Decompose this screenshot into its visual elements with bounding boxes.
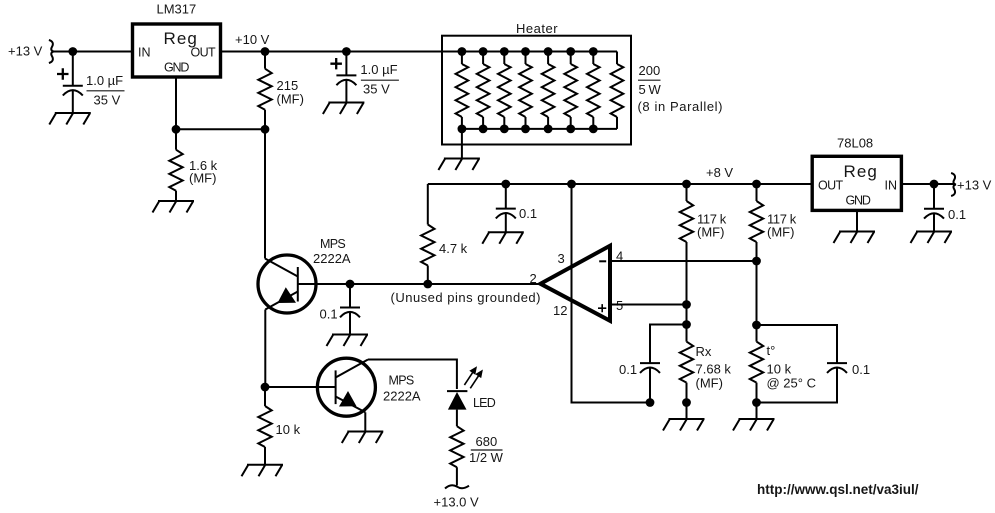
transistor Q1 MPS2222A [258, 237, 351, 313]
node junction pin4 [752, 257, 761, 266]
svg-text:t°: t° [767, 343, 776, 358]
ground [242, 465, 284, 477]
svg-text:+13 V: +13 V [957, 178, 992, 193]
svg-text:200: 200 [639, 63, 661, 78]
wire Q2 base [265, 386, 336, 388]
LED D1 [447, 366, 496, 410]
svg-text:0.1: 0.1 [948, 207, 966, 222]
node junction base cap [346, 280, 355, 289]
regulator U3 78L08 [812, 136, 901, 211]
wire LM317 GND pin down [175, 77, 177, 129]
svg-text:1.0 µF: 1.0 µF [360, 62, 397, 77]
regulator U1 LM317 [133, 2, 221, 78]
node junction dot input [68, 47, 77, 56]
svg-text:+13 V: +13 V [8, 44, 43, 59]
wire +8V rail [427, 184, 429, 225]
svg-text:3: 3 [558, 251, 565, 266]
ground [153, 201, 195, 213]
svg-text:10 k: 10 k [276, 422, 301, 437]
resistor R 215 MF [258, 52, 304, 130]
svg-text:Reg: Reg [844, 162, 879, 181]
svg-text:35 V: 35 V [94, 93, 121, 108]
capacitor 0.1 at 78L08 IN [924, 184, 966, 232]
resistor R 117k MF left [680, 180, 727, 325]
svg-text:0.1: 0.1 [619, 362, 637, 377]
node junction thermistor top [752, 321, 761, 330]
heater value label 200 / 5W / 8 in parallel [638, 63, 724, 114]
capacitor 0.1 at Q1 base [320, 284, 361, 335]
capacitor 0.1 left of Rx [619, 325, 687, 403]
resistor R 680 1/2W [450, 410, 503, 486]
ground [733, 419, 775, 431]
svg-text:+13.0 V: +13.0 V [434, 495, 480, 510]
svg-text:(8 in Parallel): (8 in Parallel) [638, 99, 724, 114]
svg-text:GND: GND [164, 61, 189, 75]
op-amp U2 [530, 246, 624, 321]
svg-text:(MF): (MF) [767, 225, 794, 240]
svg-text:@ 25° C: @ 25° C [767, 376, 816, 391]
node junction Rx bottom [682, 398, 691, 407]
svg-text:(MF): (MF) [277, 92, 304, 107]
wire opamp pin4 [610, 260, 757, 262]
svg-text:OUT: OUT [818, 179, 844, 193]
node +13V left entry [8, 40, 54, 63]
node junction pin5 [682, 300, 691, 309]
node junction GND pin [172, 125, 181, 134]
svg-text:78L08: 78L08 [837, 136, 873, 151]
ground [327, 335, 369, 347]
svg-text:10 k: 10 k [767, 362, 792, 377]
node junction 10k top [261, 383, 270, 392]
wire +13V to LM317 IN [53, 51, 133, 53]
wire Q2 collector to LED [368, 360, 457, 390]
node junction Rx top [682, 320, 691, 329]
svg-text:0.1: 0.1 [852, 362, 870, 377]
wire 78L08 IN to +13V [901, 183, 953, 185]
resistor R 117k MF right [750, 180, 797, 325]
node junction IN cap [930, 180, 939, 189]
svg-text:Rx: Rx [696, 344, 712, 359]
wire opamp pin5 [610, 304, 687, 306]
svg-text:LM317: LM317 [157, 2, 197, 17]
node +10V [235, 32, 270, 56]
svg-text:4.7 k: 4.7 k [439, 241, 468, 256]
wire LM317 OUT to heater [221, 51, 618, 53]
capacitor C2 1.0uF 35V [330, 47, 399, 102]
resistor R 1.6k MF [169, 129, 217, 201]
resistor R 4.7k [421, 225, 468, 289]
svg-text:IN: IN [885, 179, 898, 193]
heater resistor bank 200 ohm 5W x8 [456, 47, 624, 133]
svg-text:0.1: 0.1 [519, 206, 537, 221]
svg-text:1/2 W: 1/2 W [469, 450, 504, 465]
wire heater ground stem [461, 129, 463, 159]
ground [911, 232, 953, 244]
node junction thermistor bottom [752, 398, 761, 407]
svg-text:2222A: 2222A [383, 389, 421, 404]
svg-text:35 V: 35 V [363, 82, 390, 97]
svg-text:(MF): (MF) [189, 171, 216, 186]
svg-text:1.0 µF: 1.0 µF [86, 73, 123, 88]
node junction rail opamp [567, 180, 576, 189]
capacitor C1 1.0uF 35V [57, 52, 125, 114]
svg-text:0.1: 0.1 [320, 307, 338, 322]
svg-text:http://www.qsl.net/va3iul/: http://www.qsl.net/va3iul/ [757, 482, 919, 497]
svg-text:MPS: MPS [320, 237, 345, 251]
svg-text:5 W: 5 W [639, 82, 662, 97]
svg-text:Heater: Heater [516, 21, 558, 36]
ground [482, 232, 524, 244]
resistor R 10k [258, 387, 300, 465]
svg-text:+10 V: +10 V [235, 32, 270, 47]
svg-text:7.68 k: 7.68 k [696, 362, 732, 377]
resistor Rx 7.68k MF [680, 325, 732, 420]
node junction 215 bottom [261, 125, 270, 134]
svg-text:IN: IN [138, 46, 151, 60]
svg-text:2222A: 2222A [313, 251, 351, 266]
transistor Q2 MPS2222A [317, 358, 421, 416]
wire Q1 emitter down [264, 310, 266, 388]
svg-text:OUT: OUT [191, 46, 217, 60]
svg-text:(MF): (MF) [697, 225, 724, 240]
ground [663, 419, 705, 431]
node +13.0V squiggle [434, 485, 480, 509]
svg-text:MPS: MPS [389, 374, 414, 388]
svg-text:12: 12 [553, 303, 567, 318]
svg-text:680: 680 [476, 434, 498, 449]
wire Q1 base to opamp output [298, 283, 541, 285]
ground [438, 159, 480, 171]
thermistor t 10k [750, 325, 816, 419]
ground [834, 232, 876, 244]
svg-text:+8 V: +8 V [706, 165, 733, 180]
ground [49, 113, 91, 125]
svg-text:2: 2 [530, 271, 537, 286]
node +13V right entry [951, 173, 992, 196]
heater box [442, 21, 631, 145]
wire 78L08 GND stem [856, 210, 858, 231]
svg-text:(Unused pins grounded): (Unused pins grounded) [391, 290, 541, 305]
capacitor 0.1 right of thermistor [757, 325, 871, 403]
wire opamp power column [572, 184, 651, 403]
svg-text:LED: LED [473, 396, 496, 410]
node junction cap bottom [646, 398, 655, 407]
capacitor 0.1 on +8V rail [496, 180, 537, 233]
wire adj junction [176, 128, 265, 130]
svg-text:GND: GND [846, 194, 871, 208]
wire Q1 collector column [264, 129, 266, 258]
wire Q2 emitter stem [364, 412, 366, 431]
ground [323, 103, 365, 115]
ground [342, 432, 384, 444]
svg-text:(MF): (MF) [696, 376, 723, 391]
